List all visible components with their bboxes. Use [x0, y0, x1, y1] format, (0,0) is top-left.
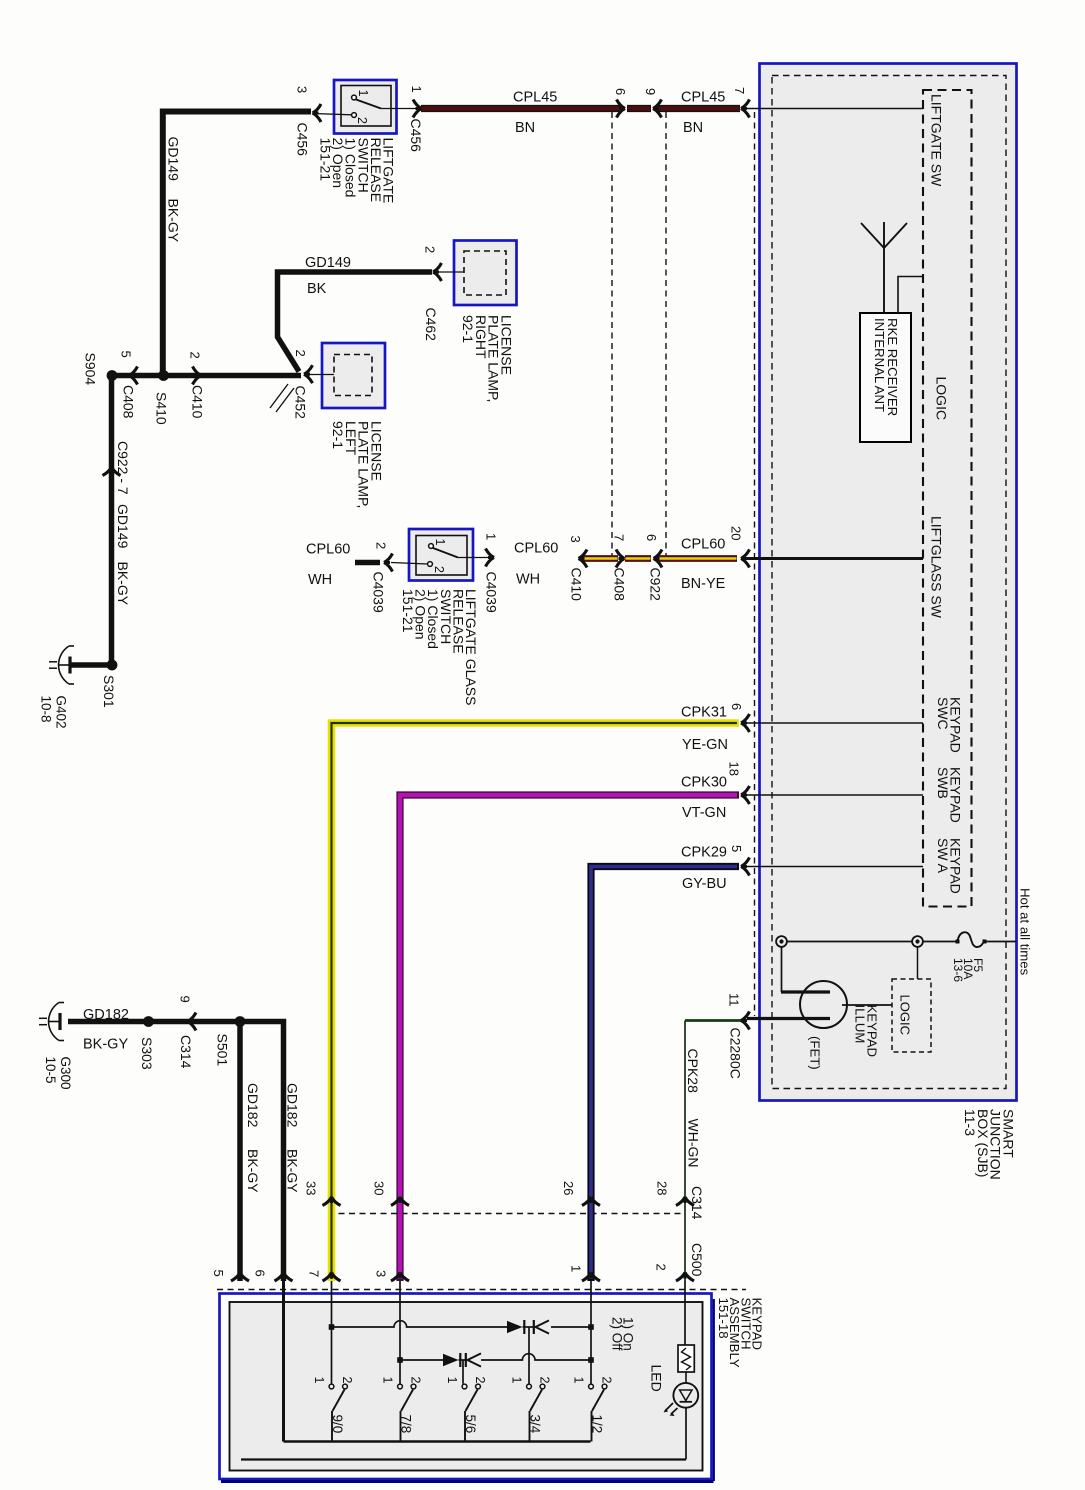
wire pin7 to pin row	[745, 108, 923, 110]
svg-text:7: 7	[307, 1270, 322, 1277]
svg-text:Hot at all times: Hot at all times	[1018, 888, 1033, 976]
connector arrow C314 pin33	[323, 1197, 341, 1206]
svg-text:C452: C452	[293, 386, 309, 420]
connector arrow C314 pin30	[391, 1197, 409, 1206]
svg-text:VT-GN: VT-GN	[682, 805, 726, 821]
svg-text:1: 1	[484, 533, 499, 540]
wire S904 to C452	[112, 373, 301, 379]
connector arrow C314 pin28	[676, 1197, 694, 1206]
svg-text:2: 2	[538, 1377, 552, 1384]
wire LED to bottom return	[685, 1408, 687, 1460]
wire CPL45 BN segment 1	[421, 105, 620, 112]
connector arrow C408 pin5	[129, 367, 138, 385]
connector C922 dashed line	[665, 112, 667, 556]
connector arrow C500 pin1	[582, 1273, 600, 1282]
connector arrow CPL45 in-line right	[653, 100, 662, 118]
connector arrow C408 pin7	[616, 550, 625, 568]
svg-text:(FET): (FET)	[808, 1036, 823, 1070]
LED D3	[673, 1383, 698, 1408]
connector arrow C4039 pin2	[384, 554, 393, 572]
svg-text:9: 9	[643, 88, 658, 95]
wire keypad pin1 internal	[590, 1281, 592, 1384]
connector C500 dashed line	[217, 1289, 746, 1291]
connector arrow C500 pin7	[323, 1273, 341, 1282]
svg-text:S301: S301	[101, 675, 117, 708]
wire CPK28 WH-GN vertical	[684, 1021, 686, 1282]
svg-text:2: 2	[374, 542, 389, 549]
svg-text:2: 2	[423, 246, 438, 253]
svg-text:GY-BU: GY-BU	[682, 876, 727, 892]
transistor Q1 keypad illum FET	[800, 981, 847, 1028]
svg-text:2: 2	[340, 1377, 354, 1384]
connector arrow C456 pin3	[313, 104, 322, 122]
wire CPK28 WH-GN horizontal	[685, 1019, 741, 1022]
keypad switch 5/6	[462, 1384, 480, 1441]
svg-text:C408: C408	[612, 568, 628, 602]
svg-text:GD149: GD149	[115, 504, 131, 549]
switch S2 pin2 internal wire	[391, 563, 428, 565]
liftgate glass release switch S2 box	[409, 529, 473, 581]
connector arrow C314 pin26	[582, 1197, 600, 1206]
node row1 purple junction	[329, 1324, 335, 1330]
svg-text:9/0: 9/0	[330, 1415, 345, 1434]
svg-text:3/4: 3/4	[528, 1415, 543, 1434]
diode D2 center tap to switch 5/6	[462, 1360, 464, 1384]
svg-text:BN: BN	[683, 120, 703, 136]
wire hot feed bus	[787, 941, 912, 943]
wire CPL60 WH stub	[355, 560, 380, 566]
connector arrow SJB pin11 C2280C	[741, 1012, 750, 1030]
wire pin18 keypad SWB	[745, 794, 923, 796]
svg-text:GD149: GD149	[305, 255, 351, 271]
license plate lamp left box	[322, 343, 385, 408]
svg-text:C410: C410	[190, 385, 206, 419]
svg-text:WH: WH	[308, 572, 332, 588]
smart junction box SJB outline	[760, 64, 1017, 1101]
lamp right internal wire	[437, 271, 464, 273]
connector arrow CPL45 in-line left	[617, 100, 626, 118]
connector arrow SJB pin18	[741, 786, 750, 804]
connector C314 dashed line	[328, 1213, 685, 1215]
splice S303	[143, 1016, 154, 1027]
connector arrow C500 pin6	[275, 1273, 293, 1282]
svg-text:1) On2) Off: 1) On2) Off	[610, 1317, 636, 1351]
connector arrow C4039 pin1	[486, 549, 495, 567]
svg-text:C922 - 7: C922 - 7	[115, 441, 131, 495]
svg-text:CPL60: CPL60	[306, 542, 350, 558]
svg-text:6: 6	[253, 1270, 268, 1277]
keypad box shadow	[221, 1480, 714, 1483]
svg-text:26: 26	[561, 1181, 576, 1195]
svg-text:GD182: GD182	[245, 1083, 261, 1128]
wire bus drop to FET	[781, 947, 783, 992]
svg-text:5: 5	[211, 1270, 226, 1277]
svg-text:C2280C: C2280C	[728, 1028, 744, 1079]
svg-text:BK-GY: BK-GY	[245, 1149, 261, 1193]
connector arrow C922-7	[103, 467, 121, 476]
svg-text:C456: C456	[295, 123, 311, 157]
FET source bar / wire pin11	[747, 1017, 830, 1020]
switch S1 arm	[356, 100, 381, 109]
FET gate wire	[842, 1004, 892, 1006]
connector arrow SJB pin20	[741, 550, 750, 568]
wire pin20 to pin row	[747, 557, 923, 560]
svg-text:C314: C314	[178, 1035, 194, 1069]
splice S501	[235, 1016, 246, 1027]
svg-text:3: 3	[374, 1270, 389, 1277]
svg-text:5: 5	[119, 351, 134, 358]
wire fuse to hot at all times	[984, 941, 1016, 943]
svg-text:3: 3	[295, 86, 310, 93]
svg-text:7: 7	[732, 87, 747, 94]
connector C2280C dashed line	[754, 112, 756, 1016]
wire CPK30 VT-GN	[400, 795, 739, 1281]
svg-text:20: 20	[729, 526, 744, 540]
SJB outer dashed boundary	[772, 76, 1006, 1089]
svg-text:30: 30	[372, 1181, 387, 1195]
svg-text:5/6: 5/6	[463, 1415, 478, 1434]
svg-text:33: 33	[304, 1181, 319, 1195]
svg-text:CPL60: CPL60	[514, 541, 558, 557]
svg-text:BK-GY: BK-GY	[115, 562, 131, 606]
svg-text:2: 2	[409, 1377, 423, 1384]
wire bus to fuse	[923, 941, 958, 943]
connector C408 dashed line	[611, 112, 613, 556]
FET drain bar	[781, 990, 830, 993]
wire pin6 keypad SWC	[745, 722, 923, 724]
wire keypad pin7 internal	[331, 1281, 333, 1384]
wire GD149 BK-GY from liftgate switch	[163, 112, 311, 376]
diode D1 center tap to switch 3/4	[528, 1327, 530, 1384]
wire S301 to ground	[70, 662, 112, 668]
svg-text:1: 1	[312, 1377, 326, 1384]
svg-text:6: 6	[729, 703, 744, 710]
svg-text:CPL45: CPL45	[513, 90, 557, 106]
switch S2 contacts	[429, 544, 434, 549]
switch S2 arm	[433, 548, 458, 558]
keypad switch 1/2	[589, 1384, 607, 1441]
svg-text:CPK30: CPK30	[681, 775, 727, 791]
wire S904 down to S301	[109, 376, 115, 666]
svg-text:CPL45: CPL45	[681, 90, 725, 106]
wire resistor to LED	[685, 1372, 687, 1383]
wire GD182 ground to S501	[68, 1019, 240, 1025]
svg-text:BK-GY: BK-GY	[83, 1037, 128, 1053]
svg-text:WH-GN: WH-GN	[686, 1119, 702, 1168]
svg-text:S501: S501	[215, 1034, 231, 1067]
ground G300 symbol	[39, 1003, 64, 1041]
svg-text:1: 1	[569, 1265, 584, 1272]
svg-text:LIFTGLASS SW: LIFTGLASS SW	[929, 516, 945, 619]
svg-text:S904: S904	[83, 353, 99, 386]
svg-text:2: 2	[600, 1377, 614, 1384]
connector arrow C410 pin2	[193, 367, 202, 385]
wire CPL60 BN-YE segment 2	[625, 555, 651, 562]
diode D2 pair	[443, 1354, 459, 1366]
wire GD182 right branch to keypad pin6	[240, 1022, 284, 1282]
svg-text:S410: S410	[154, 392, 170, 425]
svg-text:LED: LED	[649, 1365, 665, 1392]
svg-text:C4039: C4039	[484, 572, 500, 613]
antenna symbol	[861, 222, 907, 313]
keypad bottom return wire	[241, 1458, 686, 1460]
LED emission arrows	[665, 1403, 678, 1414]
svg-text:C408: C408	[121, 385, 137, 419]
svg-text:6: 6	[644, 534, 659, 541]
wire RKE to logic	[898, 277, 923, 314]
keypad switch assembly box	[220, 1294, 712, 1480]
svg-text:C500: C500	[689, 1243, 705, 1277]
svg-text:GD182: GD182	[83, 1007, 129, 1023]
svg-text:C462: C462	[423, 308, 439, 342]
SJB pin-row dashed box	[923, 90, 972, 907]
svg-text:CPL60: CPL60	[681, 537, 725, 553]
keypad inner box	[230, 1302, 703, 1471]
connector arrow SJB pin5 keypad	[741, 858, 750, 876]
wire GD182 left branch to keypad pin5	[237, 1022, 243, 1282]
keypad switch 9/0	[329, 1384, 347, 1441]
node bus terminal B	[912, 936, 923, 947]
connector arrow C500 pin3	[391, 1273, 409, 1282]
node row1 navy junction	[588, 1324, 594, 1330]
connector arrow C462 pin2	[433, 263, 442, 281]
svg-text:C4039: C4039	[371, 572, 387, 613]
svg-text:CPK31: CPK31	[681, 705, 727, 721]
switch S1 contacts	[352, 95, 357, 100]
svg-text:1: 1	[381, 1377, 395, 1384]
svg-text:2: 2	[654, 1264, 669, 1271]
wire GD149 BK to license lamps	[278, 272, 433, 372]
keypad row1 bus	[332, 1321, 508, 1327]
svg-text:1: 1	[433, 539, 447, 546]
svg-text:2: 2	[293, 350, 308, 357]
connector arrow SJB pin6 keypad	[741, 714, 750, 732]
wire CPK29 GY-BU	[591, 867, 739, 1282]
connector arrow C410 pin3	[579, 550, 588, 568]
license plate lamp right box	[454, 241, 517, 306]
node row2 navy junction	[588, 1357, 594, 1363]
svg-text:18: 18	[727, 762, 742, 776]
RKE receiver box U2	[860, 313, 911, 442]
wire CPK31 YE-GN	[332, 723, 740, 1281]
svg-text:5: 5	[729, 845, 744, 852]
splice marks at C452	[270, 384, 288, 408]
switch S2 pin1 internal wire	[458, 557, 490, 559]
svg-text:2: 2	[355, 117, 369, 124]
resistor R1 for LED	[678, 1345, 694, 1372]
keypad switch 7/8	[398, 1384, 416, 1441]
wire keypad pin3 internal	[399, 1281, 401, 1384]
connector arrow C500 pin2	[676, 1273, 694, 1282]
svg-text:BK-GY: BK-GY	[285, 1149, 301, 1193]
svg-text:YE-GN: YE-GN	[682, 737, 728, 753]
node row2 purple junction	[397, 1357, 403, 1363]
svg-text:CPK29: CPK29	[681, 845, 727, 861]
svg-text:28: 28	[655, 1181, 670, 1195]
svg-text:BK-GY: BK-GY	[166, 199, 182, 243]
svg-text:GD149: GD149	[166, 137, 182, 182]
logic dashed box	[892, 979, 931, 1052]
wire keypad pin2 internal LED feed	[684, 1281, 686, 1345]
svg-text:6: 6	[613, 88, 628, 95]
svg-text:3: 3	[568, 536, 583, 543]
svg-text:1: 1	[445, 1377, 459, 1384]
splice S904	[107, 370, 118, 381]
switch S1 pin3 internal wire	[313, 114, 352, 115]
svg-text:1/2: 1/2	[590, 1415, 605, 1434]
connector arrow SJB pin7	[741, 100, 750, 118]
svg-text:BN: BN	[515, 120, 535, 136]
wire keypad pin6 internal	[282, 1281, 285, 1442]
svg-text:1: 1	[409, 86, 424, 93]
svg-text:BN-YE: BN-YE	[681, 576, 726, 592]
wire pin5 keypad SWA	[745, 866, 923, 868]
connector arrow C452 pin2	[304, 365, 313, 383]
fuse F5	[958, 932, 985, 947]
switch S1 pin1 internal wire	[381, 108, 418, 110]
wire bus drop to logic box	[917, 947, 919, 979]
svg-text:2: 2	[473, 1377, 487, 1384]
svg-text:7/8: 7/8	[399, 1415, 414, 1434]
svg-text:1: 1	[356, 90, 370, 97]
splice S301	[107, 660, 118, 671]
ground G402 symbol	[49, 646, 74, 684]
connector arrow C922 pin6	[654, 550, 663, 568]
svg-text:BK: BK	[307, 281, 327, 297]
svg-text:11: 11	[727, 993, 742, 1007]
node bus terminal A	[776, 936, 787, 947]
svg-text:9: 9	[178, 996, 193, 1003]
keypad row2 bus	[400, 1359, 443, 1361]
lamp left internal wire	[308, 374, 334, 376]
svg-text:2: 2	[188, 352, 203, 359]
splice S410	[158, 370, 169, 381]
svg-text:1: 1	[572, 1377, 586, 1384]
svg-text:S303: S303	[139, 1037, 155, 1070]
svg-text:C922: C922	[648, 568, 664, 602]
connector arrow C456 pin1	[413, 100, 422, 118]
keypad common bus	[284, 1440, 591, 1443]
svg-text:RKE RECEIVERINTERNAL ANT: RKE RECEIVERINTERNAL ANT	[872, 318, 900, 416]
svg-text:2: 2	[432, 566, 446, 573]
svg-text:GD182: GD182	[285, 1083, 301, 1128]
wire CPL45 BN segment 2	[627, 105, 651, 112]
svg-text:1: 1	[510, 1377, 524, 1384]
svg-text:CPK28: CPK28	[685, 1049, 701, 1094]
svg-text:C456: C456	[408, 119, 424, 153]
wire CPL45 BN segment 3	[658, 105, 740, 112]
svg-text:7: 7	[612, 534, 627, 541]
svg-text:WH: WH	[516, 572, 540, 588]
connector arrow C500 pin5	[231, 1273, 249, 1282]
svg-text:C410: C410	[569, 568, 585, 602]
svg-text:LIFTGATE SW: LIFTGATE SW	[929, 94, 945, 187]
liftgate release switch S1 box	[334, 80, 397, 134]
wire CPL60 BN-YE segment 3	[658, 555, 737, 562]
svg-text:LOGIC: LOGIC	[934, 377, 950, 421]
svg-text:LOGIC: LOGIC	[898, 995, 913, 1035]
connector arrow C314 pin9	[188, 1013, 197, 1031]
keypad switch 3/4	[527, 1384, 545, 1441]
wire CPL60 BN-YE segment 1	[582, 555, 618, 562]
diode D1 pair	[507, 1321, 523, 1333]
